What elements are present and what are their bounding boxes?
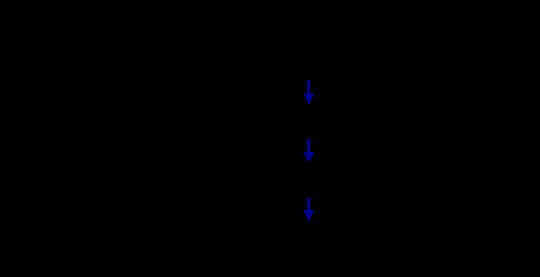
resistor R2 <box>262 116 300 124</box>
top stage: source network <box>228 18 356 76</box>
wire <box>240 119 262 121</box>
wire <box>240 179 262 181</box>
bottom stage: final equivalent <box>240 241 336 259</box>
current direction arrow I1 <box>304 80 315 106</box>
wire <box>300 119 330 121</box>
voltage source V1 <box>228 28 252 52</box>
inductor L1 <box>330 115 360 120</box>
wire <box>239 52 241 62</box>
current direction arrow I2 <box>304 138 315 162</box>
wire <box>352 18 354 30</box>
middle stage B: reduced network <box>240 170 356 190</box>
wire <box>240 17 353 19</box>
ground <box>290 62 302 76</box>
node B <box>307 179 310 182</box>
current direction arrow I3 <box>304 198 315 222</box>
middle stage A: equivalent network <box>240 115 360 124</box>
wire <box>240 61 353 63</box>
wire <box>352 50 354 62</box>
resistor R3 <box>262 176 300 184</box>
capacitor C2 <box>350 170 356 190</box>
ground <box>324 245 336 259</box>
node A <box>307 119 310 122</box>
resistor R4 <box>262 241 300 249</box>
capacitor C1 <box>350 30 356 50</box>
wire <box>239 18 241 28</box>
wire <box>300 179 350 181</box>
resistor R1 <box>262 18 300 26</box>
wire <box>300 244 330 246</box>
wire <box>240 244 262 246</box>
